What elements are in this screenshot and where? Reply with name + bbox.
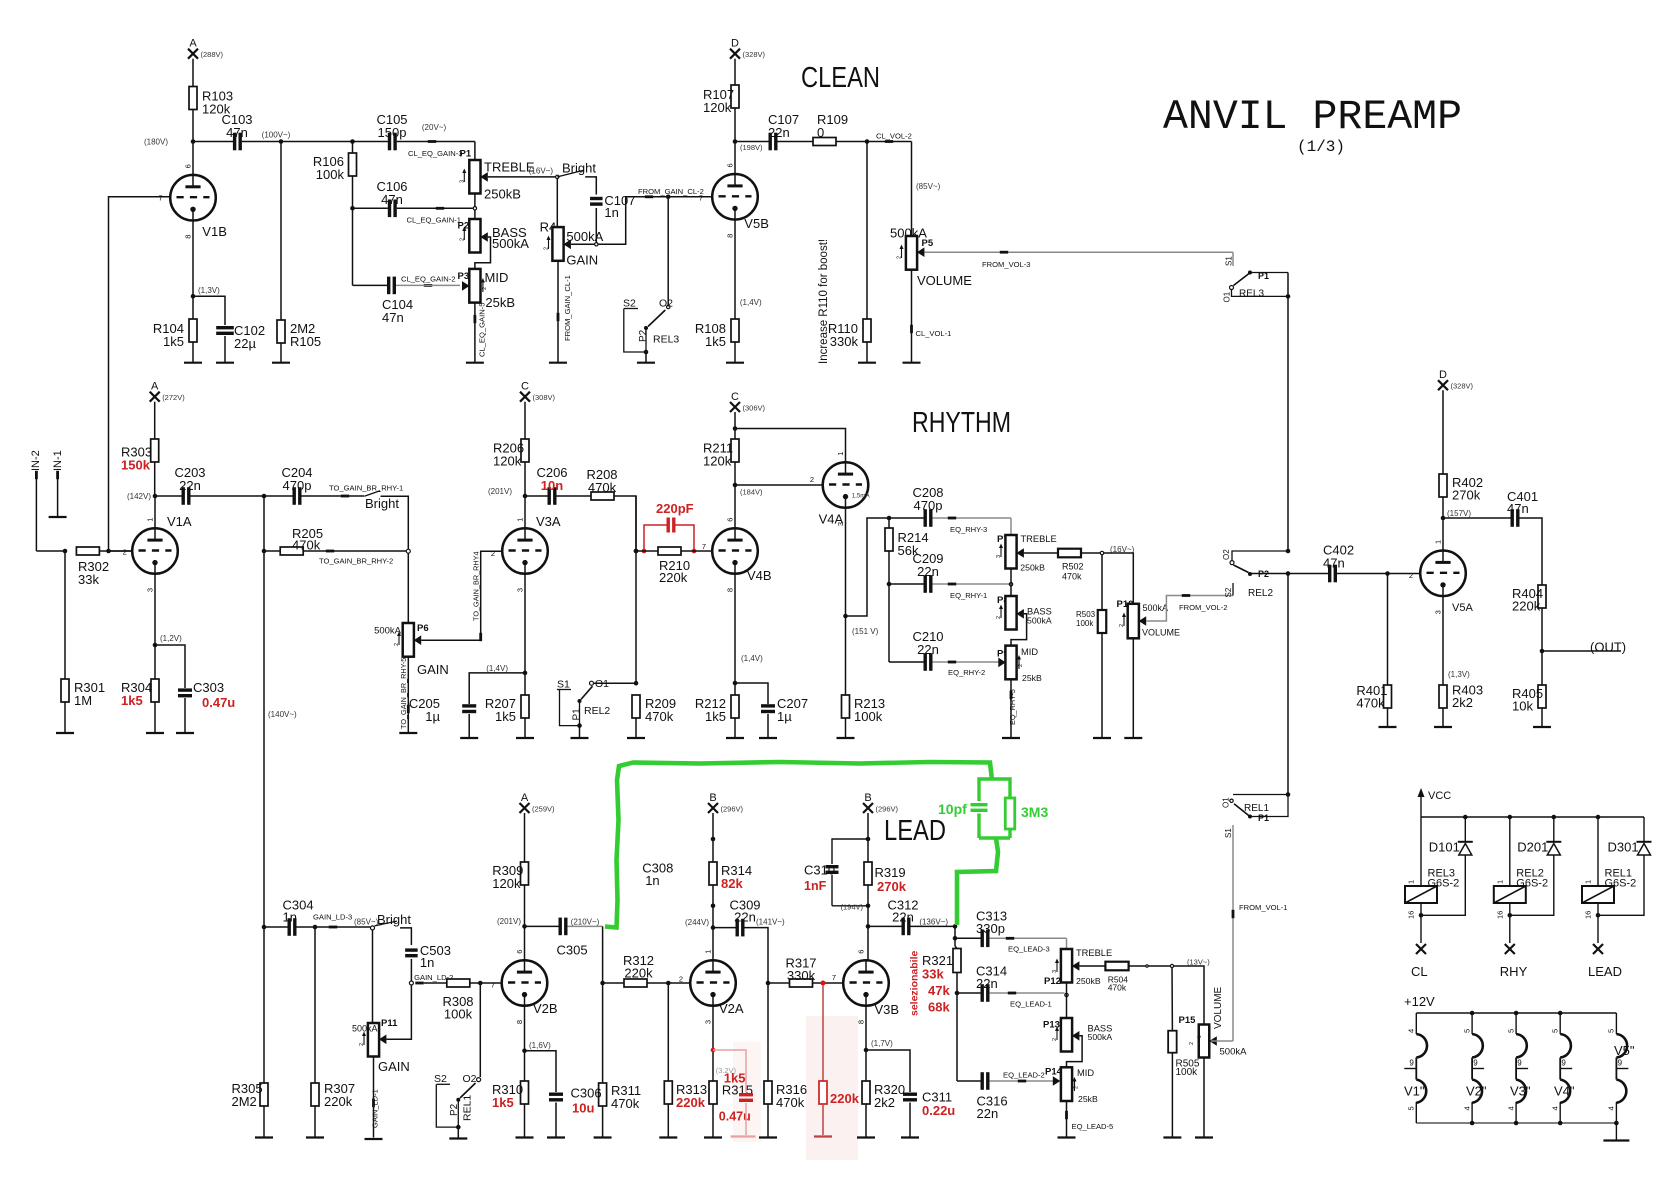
svg-text:6: 6	[515, 950, 524, 954]
svg-text:P15: P15	[1179, 1015, 1197, 1026]
resistor R209	[632, 695, 640, 718]
svg-text:R319: R319	[875, 865, 906, 880]
svg-text:270k: 270k	[1452, 488, 1481, 503]
node	[866, 837, 871, 842]
svg-text:120k: 120k	[493, 454, 522, 469]
node (198V)	[733, 139, 738, 144]
svg-text:S1: S1	[1225, 256, 1234, 266]
terminal X LEAD	[1593, 944, 1603, 954]
ground	[365, 1138, 383, 1140]
svg-text:150p: 150p	[378, 125, 407, 140]
svg-text:(201V): (201V)	[488, 487, 512, 496]
wire	[846, 518, 890, 616]
ground	[516, 1136, 534, 1138]
node CL_VOL-2	[865, 139, 870, 144]
svg-text:10u: 10u	[572, 1101, 594, 1116]
wire EQ_LEAD-5	[1066, 1101, 1068, 1138]
svg-text:470p: 470p	[283, 478, 312, 493]
wire CL_EQ_GAIN-1	[397, 207, 473, 209]
svg-text:2: 2	[544, 247, 550, 250]
svg-text:P1: P1	[460, 148, 472, 159]
svg-text:P11: P11	[381, 1018, 398, 1029]
resistor R401	[1384, 685, 1392, 708]
wire	[888, 551, 890, 662]
capacitor C204	[264, 495, 293, 497]
svg-text:V2A: V2A	[719, 1001, 744, 1016]
node (16V~)	[1100, 551, 1103, 554]
svg-text:2: 2	[394, 643, 400, 646]
heater V4	[1559, 1013, 1561, 1034]
node	[1065, 993, 1068, 996]
svg-text:MID: MID	[1077, 1068, 1094, 1078]
ground	[571, 737, 589, 739]
wiper P12	[1072, 961, 1080, 971]
switch Bright (CLEAN)	[557, 170, 583, 177]
wire	[1442, 390, 1444, 474]
svg-text:O2: O2	[1222, 549, 1231, 560]
svg-text:(288V): (288V)	[201, 50, 224, 59]
wire EQ_LEAD-3	[989, 937, 1066, 939]
svg-text:(100V~): (100V~)	[262, 131, 291, 140]
wire	[184, 698, 186, 733]
wire	[400, 928, 411, 945]
capacitor C306	[549, 1093, 563, 1096]
wire	[579, 726, 581, 738]
relay switch REL2 (S1/O1/P1)	[635, 496, 637, 551]
wire	[845, 718, 847, 738]
svg-text:EQ_RHY-5: EQ_RHY-5	[1008, 689, 1017, 725]
svg-text:82k: 82k	[721, 876, 743, 891]
capacitor C312	[866, 924, 871, 929]
svg-text:25kB: 25kB	[1022, 673, 1042, 683]
wire	[594, 682, 636, 684]
node	[406, 549, 410, 553]
svg-text:(151 V): (151 V)	[852, 627, 879, 636]
wire	[224, 336, 226, 363]
svg-text:LEAD: LEAD	[1588, 964, 1622, 979]
node (184V)	[733, 483, 738, 488]
wire	[734, 220, 736, 319]
node	[63, 549, 68, 554]
svg-text:REL1: REL1	[462, 1095, 474, 1121]
svg-text:10n: 10n	[541, 478, 563, 493]
svg-text:3: 3	[1433, 610, 1442, 614]
node	[1596, 815, 1601, 820]
svg-text:GAIN: GAIN	[566, 253, 598, 268]
node	[595, 243, 598, 246]
node (100V~)	[279, 139, 284, 144]
node	[1514, 1011, 1519, 1016]
supply C (V3A)	[520, 392, 530, 402]
ground	[547, 1136, 565, 1138]
wire output bus	[1287, 273, 1289, 552]
svg-text:P2: P2	[449, 1103, 460, 1116]
node	[1558, 1011, 1563, 1016]
svg-text:(1,2V): (1,2V)	[160, 634, 182, 643]
wire	[866, 342, 868, 363]
VCC bus	[1421, 816, 1644, 818]
svg-text:3: 3	[459, 180, 465, 183]
wire	[192, 342, 194, 363]
resistor R308	[447, 979, 470, 987]
svg-text:5: 5	[1462, 1029, 1471, 1033]
svg-text:FROM_GAIN_CL-2: FROM_GAIN_CL-2	[638, 187, 704, 196]
wire GAIN_LD-1	[373, 1057, 375, 1138]
svg-text:1µ: 1µ	[777, 709, 792, 724]
svg-text:P2: P2	[1258, 569, 1269, 579]
svg-text:470k: 470k	[588, 480, 617, 495]
svg-text:(1,7V): (1,7V)	[871, 1039, 893, 1048]
wiper P13	[1072, 1031, 1080, 1041]
node (201V)	[522, 924, 527, 929]
svg-text:S1: S1	[1224, 828, 1233, 838]
svg-text:2: 2	[482, 287, 488, 290]
wire	[192, 110, 194, 176]
svg-text:100k: 100k	[316, 167, 345, 182]
resistor R316	[764, 1081, 772, 1104]
svg-text:470k: 470k	[1356, 696, 1385, 711]
svg-text:REL2: REL2	[584, 705, 610, 717]
svg-text:V1": V1"	[1404, 1084, 1425, 1099]
node (1,4V)	[733, 681, 738, 686]
node	[473, 207, 476, 210]
svg-text:TO_GAIN_BR_RHY-2: TO_GAIN_BR_RHY-2	[319, 557, 393, 566]
node	[733, 426, 738, 431]
svg-text:Increase R110 for boost!: Increase R110 for boost!	[818, 239, 830, 364]
wire S1 FROM_VOL-1	[1232, 825, 1234, 1041]
resistor R310	[521, 1081, 529, 1104]
wire	[524, 462, 526, 528]
svg-text:4: 4	[1407, 1029, 1416, 1033]
ground	[460, 737, 478, 739]
wire	[909, 1103, 911, 1138]
svg-text:250kB: 250kB	[1076, 976, 1101, 986]
svg-text:MID: MID	[485, 270, 509, 285]
wire	[474, 142, 476, 161]
wire	[1442, 596, 1444, 685]
svg-text:V1B: V1B	[202, 224, 227, 239]
svg-text:16: 16	[1584, 911, 1593, 919]
wire	[866, 1050, 910, 1092]
svg-text:(328V): (328V)	[1451, 382, 1474, 391]
ground	[146, 732, 164, 734]
wire	[1464, 817, 1466, 842]
svg-text:2: 2	[897, 256, 903, 259]
wire	[1541, 708, 1543, 727]
svg-text:9: 9	[1517, 1059, 1522, 1068]
capacitor C402	[1288, 573, 1328, 575]
svg-text:P6: P6	[417, 623, 429, 634]
svg-text:47n: 47n	[1323, 556, 1345, 571]
svg-text:1: 1	[836, 452, 845, 456]
svg-text:P12: P12	[1044, 976, 1061, 987]
ground	[1379, 726, 1397, 728]
svg-text:S2: S2	[623, 298, 636, 310]
node	[1385, 571, 1390, 576]
wire	[734, 108, 736, 174]
wire	[1101, 633, 1103, 738]
node	[1286, 549, 1291, 554]
wire	[1509, 903, 1511, 943]
resistor R505	[1168, 1031, 1177, 1053]
svg-text:22n: 22n	[734, 910, 756, 925]
node	[766, 981, 771, 986]
svg-text:IN-2: IN-2	[30, 450, 42, 471]
node (1,6V)	[522, 1048, 527, 1053]
pot P14 arrow	[1074, 1079, 1076, 1091]
node	[666, 981, 671, 986]
resistor R109	[813, 138, 836, 146]
wire	[64, 551, 66, 679]
svg-text:ANVIL PREAMP: ANVIL PREAMP	[1163, 93, 1462, 141]
wire	[712, 813, 714, 862]
wire GAIN_LD-3	[296, 926, 370, 928]
svg-text:P1: P1	[571, 708, 582, 721]
svg-text:5: 5	[1407, 1106, 1416, 1110]
svg-text:2: 2	[359, 1043, 365, 1046]
wire CL_EQ_GAIN-5	[474, 303, 476, 363]
ground red	[814, 1135, 832, 1137]
capacitor C210	[889, 661, 924, 663]
resistor R110	[863, 319, 871, 342]
svg-text:220k: 220k	[830, 1091, 860, 1106]
ground	[176, 732, 194, 734]
relay coil REL2	[1509, 817, 1511, 886]
wire	[280, 343, 282, 363]
ground	[1002, 737, 1020, 739]
svg-text:CL_EQ_GAIN-1: CL_EQ_GAIN-1	[407, 216, 461, 225]
resistor R313	[664, 1081, 672, 1104]
svg-text:V3A: V3A	[536, 514, 561, 529]
wire	[1420, 903, 1422, 943]
svg-text:7: 7	[491, 981, 495, 990]
resistor R504	[1105, 962, 1128, 971]
wire	[190, 495, 264, 497]
wire V1A cathode	[154, 574, 156, 679]
resistor R309	[521, 862, 529, 885]
svg-text:+12V: +12V	[1404, 994, 1435, 1009]
svg-text:500kA: 500kA	[1088, 1032, 1113, 1042]
svg-text:V5A: V5A	[1452, 602, 1473, 614]
wire	[353, 141, 388, 143]
wiper P3 arrow in	[462, 281, 470, 291]
wire	[1443, 517, 1511, 519]
node	[1286, 792, 1291, 797]
node	[1508, 913, 1513, 918]
wire	[1442, 497, 1444, 551]
svg-text:EQ_LEAD-5: EQ_LEAD-5	[1072, 1122, 1114, 1131]
node	[1614, 1121, 1619, 1126]
svg-text:6: 6	[856, 950, 865, 954]
wire	[1129, 965, 1170, 967]
node dot	[1146, 965, 1148, 967]
heater V5	[1615, 1013, 1617, 1034]
svg-text:7: 7	[159, 194, 163, 203]
wire	[667, 983, 669, 1081]
ground	[466, 362, 484, 364]
svg-text:Bright: Bright	[365, 496, 399, 511]
svg-text:(1,6V): (1,6V)	[529, 1041, 551, 1050]
wire V3A cathode	[524, 574, 526, 695]
wire red	[822, 1104, 824, 1135]
resistor R303	[151, 439, 159, 462]
ground	[759, 737, 777, 739]
resistor R315	[709, 1081, 717, 1104]
svg-text:330k: 330k	[830, 334, 859, 349]
green branch cap 10pf	[979, 779, 992, 801]
wire	[524, 402, 526, 439]
svg-text:2: 2	[1052, 1038, 1058, 1041]
capacitor C106	[388, 200, 391, 218]
svg-text:8: 8	[515, 1020, 524, 1024]
node	[1470, 1011, 1475, 1016]
tube V2A	[690, 960, 736, 1006]
svg-text:VCC: VCC	[1428, 790, 1451, 802]
node	[371, 926, 375, 930]
wire	[836, 141, 912, 143]
resistor R317	[768, 982, 790, 984]
svg-text:0: 0	[817, 125, 824, 140]
wire	[1387, 574, 1389, 686]
svg-text:120k: 120k	[703, 454, 732, 469]
svg-text:R503: R503	[1076, 610, 1096, 619]
svg-text:1k5: 1k5	[163, 334, 184, 349]
svg-text:10k: 10k	[1512, 699, 1533, 714]
wire V3B cathode	[865, 1006, 867, 1081]
svg-text:68k: 68k	[928, 1000, 950, 1015]
svg-text:1µ: 1µ	[425, 709, 440, 724]
svg-text:A: A	[151, 381, 159, 393]
svg-text:270k: 270k	[877, 879, 907, 894]
resistor R108	[731, 319, 739, 342]
wire	[645, 352, 647, 363]
wire FROM_GAIN_CL-2	[598, 197, 712, 245]
tube V4B	[712, 528, 758, 574]
svg-text:250kB: 250kB	[1020, 563, 1045, 573]
wire	[1232, 583, 1234, 596]
resistor R304	[151, 679, 159, 702]
svg-text:C310: C310	[804, 863, 835, 878]
wire	[1211, 1040, 1233, 1042]
wire long drop to LEAD	[263, 496, 265, 927]
wire	[1171, 1053, 1173, 1138]
ground	[903, 362, 921, 364]
wire	[474, 194, 476, 220]
svg-text:(13V~): (13V~)	[1187, 958, 1210, 967]
tube V1B	[170, 175, 216, 221]
svg-text:5: 5	[1550, 1029, 1559, 1033]
svg-text:500kA: 500kA	[492, 236, 529, 251]
svg-text:220k: 220k	[659, 570, 688, 585]
svg-text:(306V): (306V)	[743, 404, 766, 413]
svg-text:3: 3	[836, 522, 845, 526]
wire	[372, 930, 374, 1023]
wire to diode	[1598, 855, 1644, 915]
node	[887, 582, 892, 587]
capacitor C304	[264, 926, 288, 928]
wiper P2	[480, 232, 488, 242]
node (244V)	[711, 925, 716, 930]
wiper P15 FROM_VOL-1	[1209, 1036, 1217, 1046]
svg-text:22n: 22n	[179, 478, 201, 493]
node	[262, 494, 267, 499]
node GAIN_LD-2	[409, 981, 413, 985]
ground	[857, 1136, 875, 1138]
svg-text:selezionabile: selezionabile	[909, 950, 921, 1016]
wire	[602, 1106, 604, 1138]
svg-text:C305: C305	[557, 943, 588, 958]
wire	[555, 1103, 557, 1138]
capacitor C103	[233, 133, 236, 151]
supply B (V3B)	[863, 803, 873, 813]
svg-text:V3": V3"	[1510, 1084, 1531, 1099]
svg-text:1: 1	[1584, 880, 1593, 884]
svg-text:500kA: 500kA	[1220, 1047, 1248, 1058]
svg-text:500kA: 500kA	[566, 229, 603, 244]
svg-text:(272V): (272V)	[162, 393, 185, 402]
svg-text:RHYTHM: RHYTHM	[912, 407, 1011, 439]
node	[350, 139, 355, 144]
wire EQ_RHY-1	[932, 583, 1009, 585]
ground	[1093, 737, 1111, 739]
supply A (V2B)	[520, 803, 530, 813]
resistor R307	[311, 1083, 319, 1106]
svg-text:7: 7	[699, 194, 703, 203]
node	[887, 516, 892, 521]
svg-text:CL_EQ_GAIN-3: CL_EQ_GAIN-3	[408, 149, 462, 158]
wire	[193, 141, 233, 143]
ground	[306, 1136, 324, 1138]
svg-text:GAIN_LD-1: GAIN_LD-1	[370, 1089, 379, 1128]
wire	[956, 973, 958, 1082]
node	[953, 936, 958, 941]
wire	[469, 673, 525, 704]
node (194V)	[866, 904, 871, 909]
resistor R211	[731, 439, 739, 462]
svg-text:S2: S2	[434, 1073, 447, 1085]
node (1,3V)	[191, 294, 196, 299]
wire	[410, 959, 412, 981]
wire TO_GAIN_BR_RHY-4	[481, 551, 501, 640]
svg-text:EQ_RHY-2: EQ_RHY-2	[948, 668, 985, 677]
ground	[901, 1136, 919, 1138]
svg-text:(328V): (328V)	[743, 50, 766, 59]
svg-text:2: 2	[679, 975, 683, 984]
svg-text:1k5: 1k5	[495, 709, 516, 724]
wire CL_EQ_GAIN-3	[397, 141, 475, 143]
resistor R105 2M2	[277, 320, 285, 343]
svg-text:33k: 33k	[922, 967, 944, 982]
node	[1463, 815, 1468, 820]
svg-text:500kA: 500kA	[352, 1024, 378, 1034]
supply A (V1A)	[150, 392, 160, 402]
svg-text:FROM_VOL-2: FROM_VOL-2	[1179, 603, 1228, 612]
tube V5B	[712, 174, 758, 220]
node	[1552, 815, 1557, 820]
svg-text:(244V): (244V)	[685, 918, 709, 927]
wire	[911, 142, 913, 237]
svg-text:2k2: 2k2	[1452, 695, 1473, 710]
wire	[457, 1127, 459, 1137]
svg-text:2: 2	[1409, 571, 1413, 580]
wire V2B cathode	[524, 1006, 526, 1081]
relay coil REL1	[1597, 817, 1599, 886]
capacitor 220pF (red mod)	[644, 525, 667, 551]
svg-text:EQ_LEAD-2: EQ_LEAD-2	[1003, 1071, 1045, 1080]
svg-text:P2: P2	[638, 329, 649, 342]
wire	[867, 813, 869, 839]
wire	[242, 141, 353, 143]
